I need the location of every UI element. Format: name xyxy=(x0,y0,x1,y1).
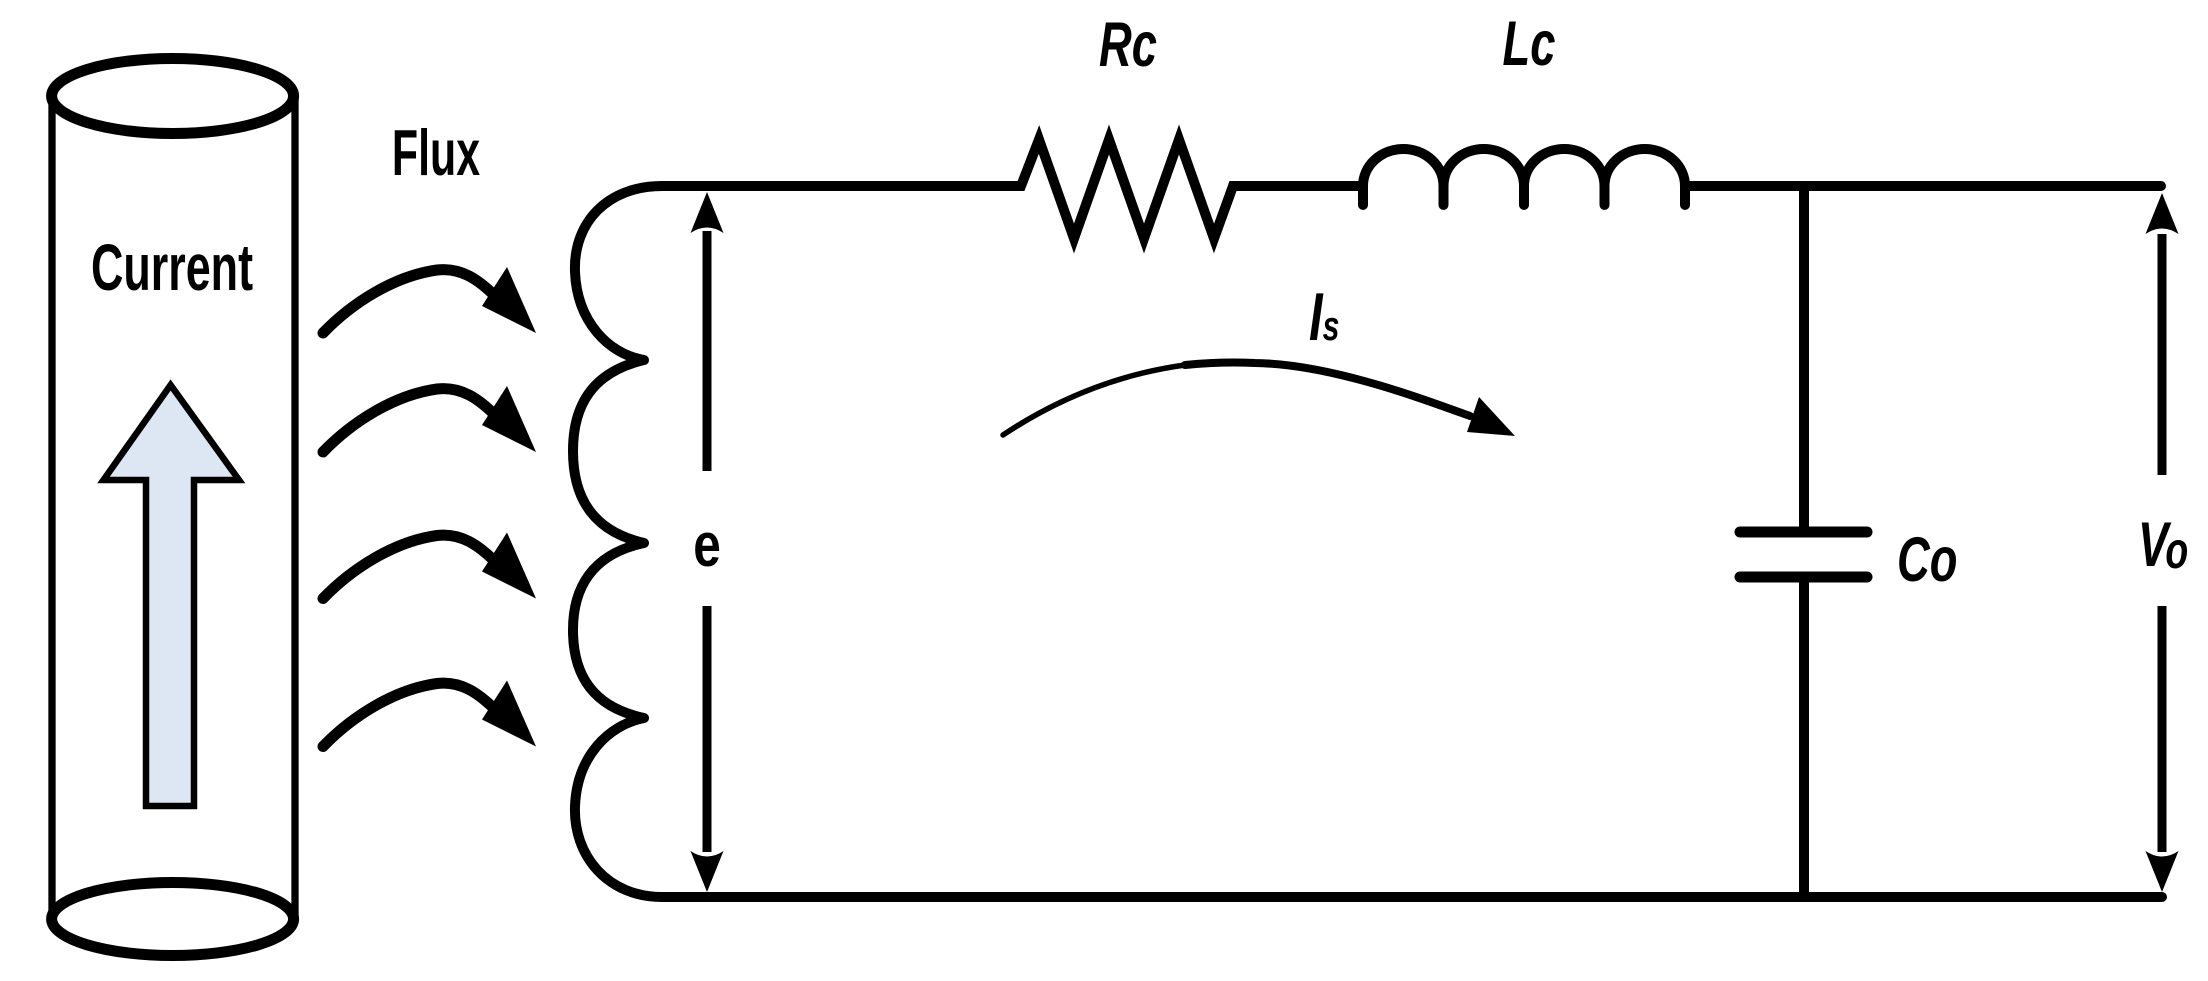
bottom wire xyxy=(662,892,2162,902)
top wire: coil to resistor xyxy=(660,181,1022,191)
current direction arrow xyxy=(104,385,240,806)
flux arrow 2 xyxy=(323,386,536,452)
svg-text:Lc: Lc xyxy=(1503,8,1556,79)
conductor cylinder xyxy=(52,59,295,956)
flux arrow 1 xyxy=(323,267,536,333)
flux arrow 3 xyxy=(323,533,536,599)
svg-text:Flux: Flux xyxy=(392,116,480,189)
svg-text:Co: Co xyxy=(1897,524,1957,595)
resistor Rc xyxy=(1012,140,1242,239)
Vo arrow (upper) xyxy=(2158,234,2167,475)
Vo arrow (lower) xyxy=(2158,606,2167,852)
wire: inductor to right end xyxy=(1685,181,2161,191)
capacitor Co lower lead xyxy=(1799,577,1809,897)
flux arrow 4 xyxy=(323,681,536,747)
inductor Lc xyxy=(1363,149,1685,205)
Is current arrow xyxy=(1003,365,1185,435)
svg-text:Rc: Rc xyxy=(1099,9,1157,80)
svg-text:Current: Current xyxy=(91,230,253,304)
capacitor Co plates xyxy=(1740,532,1867,577)
capacitor Co branch upper lead xyxy=(1799,186,1809,532)
svg-text:e: e xyxy=(693,510,721,580)
e arrow (upper) xyxy=(703,231,712,471)
coil winding xyxy=(573,186,700,897)
e arrow (lower) xyxy=(703,606,712,852)
wire: resistor to inductor xyxy=(1232,181,1363,191)
